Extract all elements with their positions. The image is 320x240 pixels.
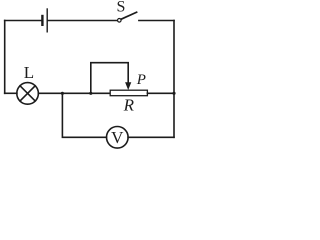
junction node B (wiper tap) [89, 92, 92, 95]
switch S [118, 12, 137, 22]
wire: top rail, battery to switch pivot [48, 20, 117, 22]
wire: top rail, left segment to battery [5, 20, 42, 22]
svg-text:R: R [123, 96, 135, 115]
wire: wiper loop up-over-down [91, 63, 128, 94]
wiper arrowhead [125, 82, 131, 90]
voltmeter V [107, 127, 129, 149]
svg-text:S: S [117, 0, 126, 15]
wire: right rail vertical [173, 21, 175, 138]
resistor R box [110, 90, 147, 96]
svg-text:V: V [111, 128, 124, 147]
wire: resistor to right rail [147, 92, 174, 94]
wire: lamp to resistor [38, 92, 110, 94]
wire: voltmeter branch left and bottom [62, 93, 106, 137]
junction node A (lamp/voltmeter tap) [61, 92, 64, 95]
wire: bottom-left corner to lamp [5, 92, 17, 94]
svg-text:L: L [24, 63, 34, 82]
wire: left rail vertical [4, 21, 6, 94]
junction node C (right rail / resistor) [172, 92, 175, 95]
battery [42, 9, 47, 32]
wire: voltmeter to right rail [128, 136, 174, 138]
svg-text:P: P [136, 72, 146, 88]
wire: top rail, switch contact to top-right corner [139, 20, 174, 22]
lamp L [17, 83, 39, 105]
